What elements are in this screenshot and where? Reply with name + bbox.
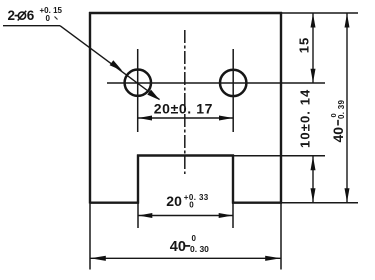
leader diagonal line <box>60 26 160 100</box>
dimension 20 +0.33 line <box>138 215 233 217</box>
dimension 10±0.14 arrow up <box>311 156 316 170</box>
svg-text:20: 20 <box>166 193 182 209</box>
dimension 20±0.17 arrow left <box>138 116 152 121</box>
dimension 10±0.14 line <box>312 156 314 203</box>
part outline left edge <box>89 12 91 204</box>
svg-text:40: 40 <box>330 127 346 143</box>
part outline bottom-right edge <box>232 201 282 203</box>
part outline bottom-left edge <box>90 201 139 203</box>
svg-text:15: 15 <box>296 37 311 53</box>
notch top edge <box>137 154 234 156</box>
notch right extension line down <box>232 204 234 229</box>
svg-text:0: 0 <box>192 234 197 243</box>
leader underline for hole label <box>3 25 60 27</box>
hole 2 vertical centerline <box>232 49 234 132</box>
svg-text:40: 40 <box>170 239 186 255</box>
hole 1 (left, dia 6) <box>125 70 151 96</box>
notch top extension line <box>234 155 325 157</box>
dimension 20 +0.33 arrow left <box>138 213 152 218</box>
svg-text:2: 2 <box>8 8 16 23</box>
svg-text:20±0. 17: 20±0. 17 <box>154 100 213 116</box>
dimension 20±0.17 arrow right <box>219 116 233 121</box>
svg-text:+0. 33: +0. 33 <box>184 193 209 202</box>
dimension 15 line <box>312 13 314 83</box>
svg-text:10±0. 14: 10±0. 14 <box>298 89 313 148</box>
svg-text:0: 0 <box>189 201 194 210</box>
notch left extension line down <box>137 204 139 229</box>
horizontal centerline through holes <box>107 82 325 84</box>
svg-text:6: 6 <box>27 8 35 23</box>
dimension 10±0.14 arrow down <box>311 188 316 202</box>
dimension 20±0.17 line <box>138 117 234 119</box>
vertical centerline of part <box>184 30 186 174</box>
dimension 15 arrow down <box>311 69 316 83</box>
dimension 40 -0.30 arrow left <box>90 256 106 261</box>
svg-text:0. 39: 0. 39 <box>337 99 346 119</box>
stray scan tick <box>55 17 58 20</box>
hole 2 (right, dia 6) <box>220 70 246 96</box>
part outline top edge <box>89 12 282 14</box>
leader end arrowhead <box>147 90 160 101</box>
top edge extension line <box>282 12 358 14</box>
notch left edge <box>137 155 139 204</box>
svg-text:0: 0 <box>46 14 51 23</box>
dimension 40 -0.39 text <box>329 99 346 142</box>
dimension 15 arrow up <box>311 14 316 28</box>
dimension 40 -0.39 arrow down <box>345 188 350 202</box>
bottom edge extension line right <box>282 202 358 204</box>
notch right edge <box>232 155 234 204</box>
leader mid arrowhead <box>110 60 123 70</box>
dimension 20 +0.33 arrow right <box>219 213 233 218</box>
svg-text:0. 30: 0. 30 <box>190 244 209 254</box>
left edge extension line down <box>89 204 91 270</box>
svg-text:+0. 15: +0. 15 <box>40 6 63 15</box>
dimension 40 -0.39 line <box>346 13 348 203</box>
right edge extension line down <box>280 204 282 270</box>
dimension 40 -0.39 arrow up <box>345 14 350 28</box>
hole label phi symbol <box>18 12 25 19</box>
dimension 40 -0.30 line <box>90 257 281 259</box>
hole 1 vertical centerline <box>137 49 139 132</box>
dimension 40 -0.30 arrow right <box>265 256 281 261</box>
part outline right edge <box>280 12 282 204</box>
